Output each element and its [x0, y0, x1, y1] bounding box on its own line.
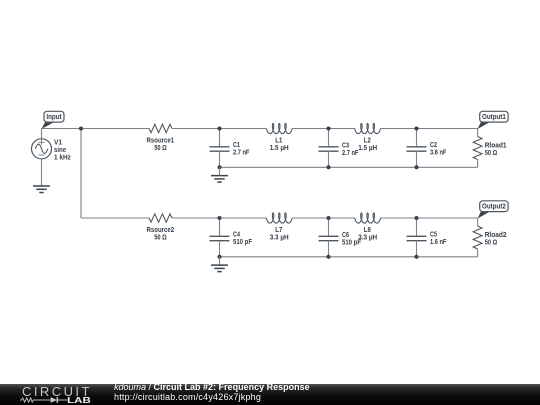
svg-text:LAB: LAB	[67, 396, 91, 405]
svg-text:510 pF: 510 pF	[233, 239, 252, 246]
svg-text:Rload1: Rload1	[485, 143, 507, 150]
svg-text:1.5 µH: 1.5 µH	[358, 145, 377, 152]
svg-text:Rload2: Rload2	[485, 232, 507, 239]
svg-text:3.3 µH: 3.3 µH	[358, 234, 377, 241]
svg-text:C4: C4	[233, 231, 240, 238]
svg-text:50 Ω: 50 Ω	[154, 145, 167, 152]
svg-text:50 Ω: 50 Ω	[154, 235, 167, 242]
svg-text:L8: L8	[364, 227, 371, 234]
svg-text:L2: L2	[364, 138, 371, 145]
svg-text:1 kHz: 1 kHz	[54, 154, 71, 161]
svg-text:L1: L1	[275, 138, 282, 145]
svg-text:C6: C6	[342, 232, 349, 239]
svg-text:Rsource2: Rsource2	[147, 227, 175, 234]
svg-text:V1: V1	[54, 139, 62, 146]
svg-text:Output1: Output1	[482, 114, 506, 121]
svg-text:sine: sine	[54, 147, 66, 154]
svg-text:C3: C3	[342, 142, 349, 149]
svg-text:50 Ω: 50 Ω	[485, 240, 498, 247]
svg-text:C1: C1	[233, 142, 240, 149]
svg-text:C5: C5	[430, 231, 437, 238]
svg-text:L7: L7	[275, 227, 282, 234]
svg-text:3.6 nF: 3.6 nF	[430, 149, 446, 156]
svg-text:2.7 nF: 2.7 nF	[342, 150, 358, 157]
svg-text:50 Ω: 50 Ω	[485, 150, 498, 157]
svg-text:Input: Input	[46, 114, 62, 121]
svg-text:Rsource1: Rsource1	[147, 138, 175, 145]
svg-text:C2: C2	[430, 142, 437, 149]
svg-text:Output2: Output2	[482, 203, 506, 210]
svg-text:2.7 nF: 2.7 nF	[233, 149, 249, 156]
svg-text:3.3 µH: 3.3 µH	[270, 234, 289, 241]
svg-text:1.6 nF: 1.6 nF	[430, 239, 446, 246]
svg-text:1.5 µH: 1.5 µH	[270, 145, 289, 152]
